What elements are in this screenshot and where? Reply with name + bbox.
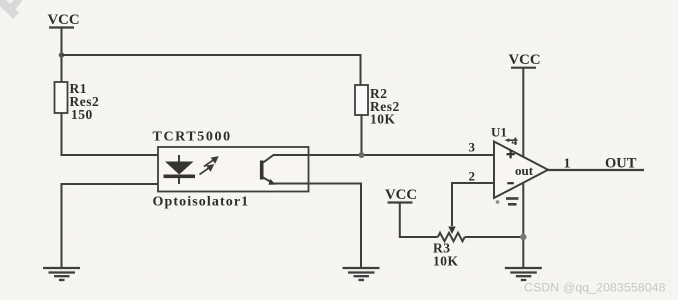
wire R3 right to ground net xyxy=(465,236,524,238)
resistor R1 xyxy=(55,82,68,113)
svg-text:Optoisolator1: Optoisolator1 xyxy=(153,195,250,210)
svg-text:10K: 10K xyxy=(433,254,459,269)
wire R2 bottom to net xyxy=(361,115,363,155)
svg-text:150: 150 xyxy=(71,107,93,122)
svg-text:3: 3 xyxy=(469,140,476,155)
ground (middle) xyxy=(343,268,380,280)
ground (left) xyxy=(43,268,80,280)
wire VCC node to R2 top xyxy=(62,55,361,85)
LED of optoisolator xyxy=(164,155,196,184)
wire emitter to ground xyxy=(309,184,362,268)
wire VCC to R3 left xyxy=(400,203,438,238)
light arrows xyxy=(200,157,218,174)
junction (VCC node) xyxy=(59,52,65,58)
wire op-amp pin 2 to R3 wiper xyxy=(452,183,494,226)
svg-text:4: 4 xyxy=(512,136,518,148)
phototransistor xyxy=(262,155,309,185)
wire VCC to R1 xyxy=(61,28,63,83)
wire R1 to LED anode xyxy=(62,113,180,155)
junction (pin 3 net) xyxy=(359,152,365,158)
svg-text:CSDN @qq_2083558048: CSDN @qq_2083558048 xyxy=(524,280,666,294)
potentiometer R3 xyxy=(438,233,465,241)
wire VCC to op-amp power pin 4 xyxy=(522,68,524,157)
ground (op-amp) xyxy=(505,268,542,280)
R3 wiper arrow xyxy=(448,227,455,235)
optoisolator Optoisolator1 body xyxy=(158,147,309,192)
svg-text:VCC: VCC xyxy=(48,12,80,28)
svg-text:VCC: VCC xyxy=(509,52,541,68)
wire LED cathode to ground xyxy=(62,184,180,267)
svg-text:2: 2 xyxy=(469,169,476,184)
svg-text:U1: U1 xyxy=(491,125,507,140)
svg-text:VCC: VCC xyxy=(385,187,417,203)
svg-text:10K: 10K xyxy=(370,112,396,127)
svg-text:out: out xyxy=(515,163,534,178)
svg-text:TCRT5000: TCRT5000 xyxy=(153,130,232,145)
svg-text:1: 1 xyxy=(564,156,571,171)
op-amp U1 xyxy=(494,142,548,199)
wire collector net to op-amp pin 3 xyxy=(309,154,495,156)
power VCC (left) xyxy=(48,12,80,28)
resistor R2 xyxy=(355,85,368,115)
power VCC (op-amp) xyxy=(509,52,541,68)
wire op-amp pin 11 to ground xyxy=(522,183,524,268)
pin 11 marks xyxy=(496,199,519,205)
junction (ground net) xyxy=(520,234,526,240)
wire op-amp output to OUT xyxy=(548,169,644,171)
svg-text:OUT: OUT xyxy=(605,156,637,172)
power VCC (R3) xyxy=(385,187,417,203)
pin 4 label xyxy=(505,136,518,148)
